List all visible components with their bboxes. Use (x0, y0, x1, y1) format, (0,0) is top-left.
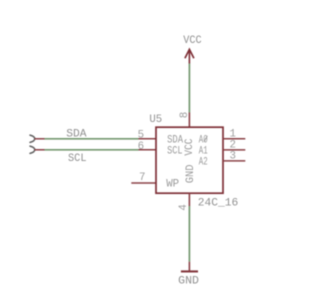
pin 8 stub (188, 113, 190, 128)
pin 7 stub (131, 182, 156, 184)
pin 1 stub (223, 138, 245, 140)
svg-text:SCL: SCL (68, 153, 87, 165)
connector chevron SCL (30, 146, 35, 153)
svg-text:7: 7 (139, 172, 145, 184)
svg-text:SDA: SDA (66, 128, 87, 140)
svg-text:GND: GND (185, 164, 197, 183)
svg-text:A2: A2 (199, 157, 208, 169)
wire SDA (35, 138, 139, 140)
pin 4 stub (188, 193, 190, 206)
svg-text:VCC: VCC (183, 35, 202, 47)
connector chevron SDA (30, 135, 35, 142)
wire SCL (35, 149, 139, 151)
svg-text:8: 8 (179, 112, 191, 118)
svg-text:6: 6 (138, 141, 144, 153)
wire VCC net (188, 64, 190, 113)
svg-text:VCC: VCC (184, 138, 196, 155)
svg-text:4: 4 (178, 204, 190, 210)
svg-text:GND: GND (178, 275, 199, 287)
pin 3 stub (223, 160, 245, 162)
pin 5 stub (139, 138, 157, 140)
svg-text:SCL: SCL (167, 145, 182, 157)
svg-text:5: 5 (138, 129, 144, 141)
wire GND net (188, 206, 190, 262)
svg-text:U5: U5 (149, 114, 162, 126)
IC U5 box (156, 127, 223, 193)
ground GND symbol (178, 262, 199, 288)
pin 6 stub (139, 149, 157, 151)
power VCC symbol (183, 35, 202, 64)
svg-text:3: 3 (229, 151, 235, 163)
pin 2 stub (223, 149, 245, 151)
svg-text:24C_16: 24C_16 (198, 198, 239, 210)
svg-text:WP: WP (166, 179, 179, 191)
